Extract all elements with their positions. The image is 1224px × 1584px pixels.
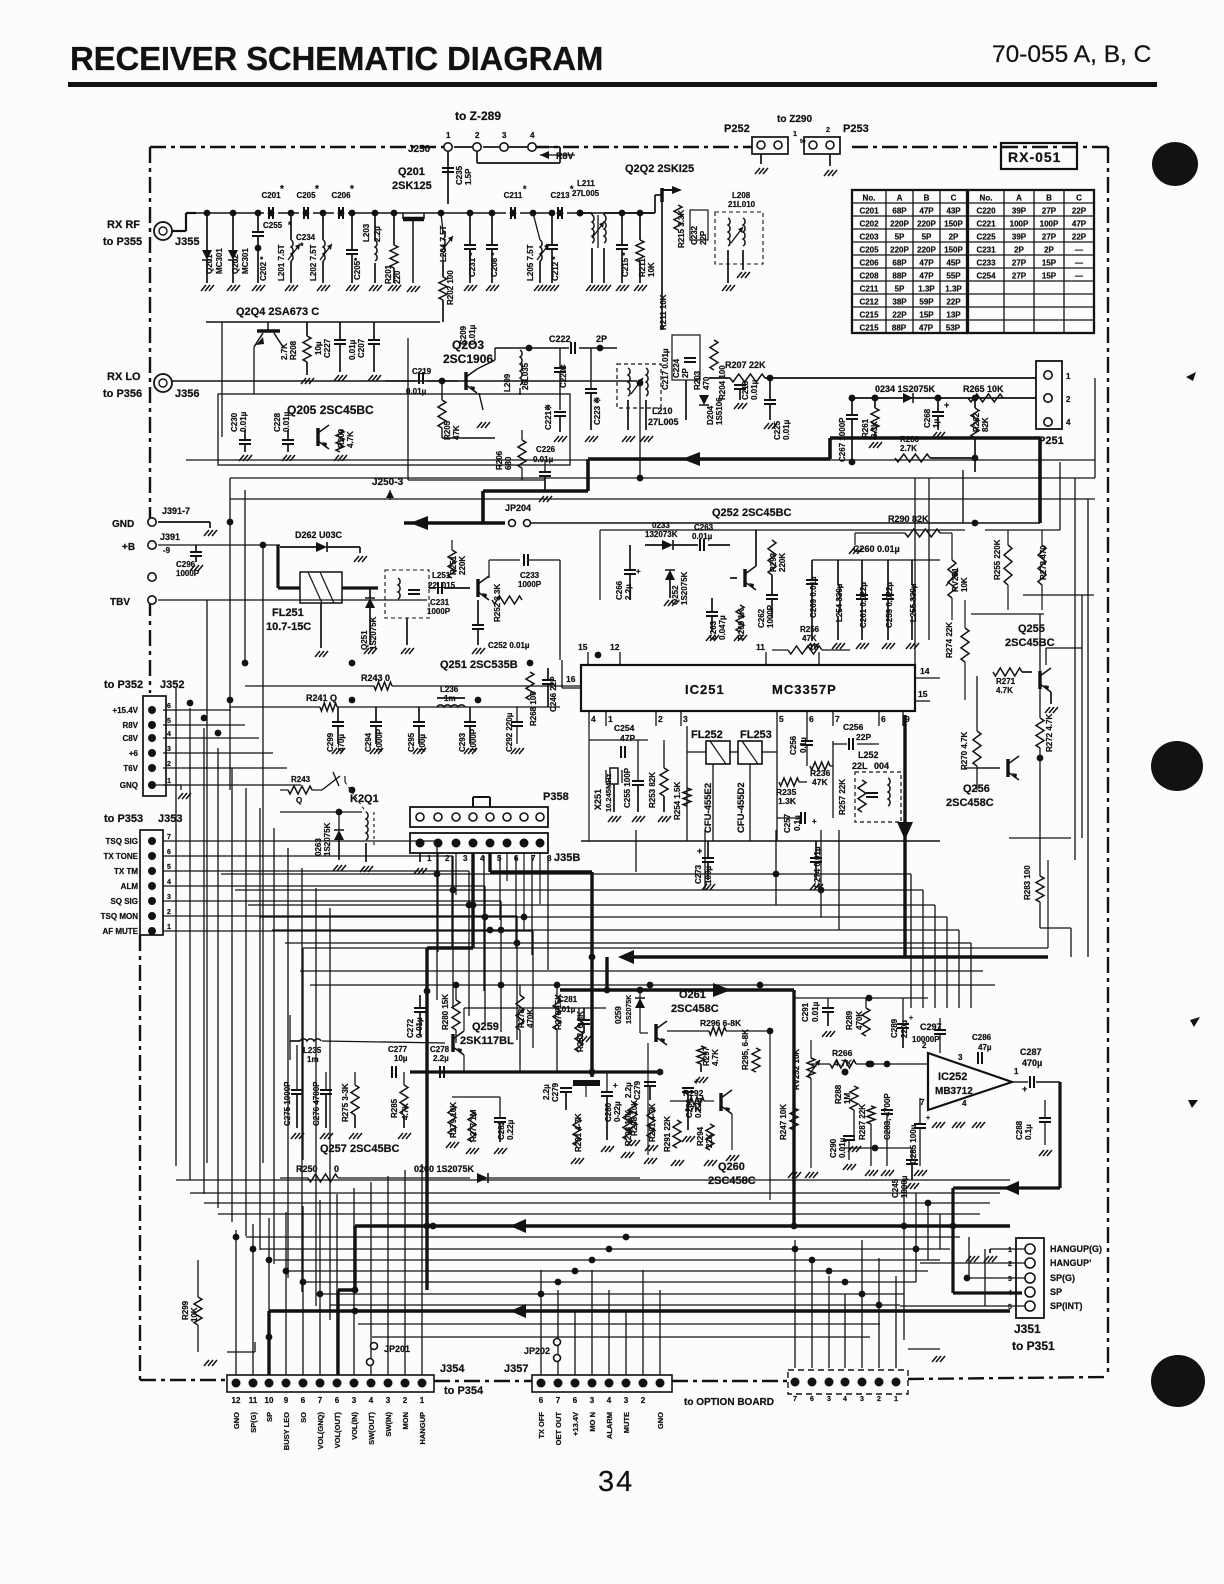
svg-text:27L005: 27L005 [648, 417, 679, 427]
svg-text:220P: 220P [890, 246, 909, 255]
svg-text:C257: C257 [783, 813, 792, 833]
svg-text:C256: C256 [789, 735, 798, 755]
svg-text:C201: C201 [261, 191, 281, 200]
svg-text:5P: 5P [895, 233, 905, 242]
svg-text:C231: C231 [976, 246, 996, 255]
svg-text:No.: No. [863, 194, 876, 203]
svg-text:+: + [613, 1081, 618, 1090]
svg-text:R203: R203 [693, 370, 702, 390]
svg-text:SW(IN): SW(IN) [384, 1411, 393, 1436]
svg-text:—: — [1075, 259, 1083, 268]
svg-text:P358: P358 [543, 791, 569, 803]
svg-text:C225: C225 [773, 420, 782, 440]
svg-text:FL253: FL253 [740, 729, 772, 741]
svg-text:6: 6 [301, 1396, 306, 1405]
svg-text:R251: R251 [449, 555, 458, 575]
svg-text:FL251: FL251 [272, 607, 304, 619]
svg-text:2: 2 [877, 1396, 881, 1403]
svg-text:to P353: to P353 [104, 813, 143, 825]
svg-text:7: 7 [835, 714, 840, 724]
svg-text:39P: 39P [1012, 233, 1027, 242]
svg-text:CFU-455D2: CFU-455D2 [736, 782, 747, 833]
svg-text:C225: C225 [976, 233, 996, 242]
svg-text:1.5P: 1.5P [464, 168, 473, 185]
svg-text:Q202: Q202 [231, 254, 240, 274]
svg-text:3.3K: 3.3K [870, 421, 879, 438]
svg-text:4.7K: 4.7K [711, 1049, 720, 1066]
svg-text:220P: 220P [890, 220, 909, 229]
svg-text:2: 2 [641, 1396, 646, 1405]
svg-text:1.3P: 1.3P [945, 285, 962, 294]
svg-text:A: A [897, 194, 903, 203]
svg-text:R298 10K: R298 10K [624, 1110, 633, 1146]
svg-text:J356: J356 [175, 388, 199, 400]
svg-text:10: 10 [265, 1396, 274, 1405]
svg-text:1000P: 1000P [518, 580, 542, 589]
svg-text:220P: 220P [917, 246, 936, 255]
svg-text:27P: 27P [1012, 259, 1027, 268]
svg-text:SW(OUT): SW(OUT) [367, 1412, 376, 1445]
svg-text:TX TM: TX TM [114, 867, 138, 876]
svg-text:6: 6 [167, 849, 171, 856]
svg-text:680: 680 [504, 456, 513, 470]
svg-text:MON: MON [401, 1412, 410, 1430]
svg-text:L210: L210 [652, 406, 673, 416]
svg-text:2SC458C: 2SC458C [708, 1175, 756, 1187]
svg-text:C245: C245 [891, 1178, 900, 1198]
svg-text:Q: Q [296, 796, 302, 805]
svg-text:470µ: 470µ [337, 734, 346, 752]
svg-text:12: 12 [232, 1396, 241, 1405]
svg-text:59P: 59P [919, 298, 934, 307]
svg-text:RX LO: RX LO [107, 371, 141, 383]
svg-text:C202: C202 [859, 220, 879, 229]
svg-text:+: + [1022, 1084, 1027, 1094]
svg-text:22P: 22P [892, 311, 907, 320]
svg-text:0.1µ: 0.1µ [1024, 1124, 1033, 1140]
svg-text:82K: 82K [981, 417, 990, 432]
svg-text:R270 4.7K: R270 4.7K [960, 732, 969, 770]
svg-text:C287: C287 [1020, 1047, 1042, 1057]
svg-text:L201 7.5T: L201 7.5T [277, 244, 286, 281]
svg-text:C255: C255 [263, 221, 283, 230]
svg-text:6: 6 [335, 1396, 340, 1405]
svg-text:22P: 22P [1072, 233, 1087, 242]
svg-text:22L: 22L [852, 761, 868, 771]
svg-text:45P: 45P [946, 259, 961, 268]
svg-text:220P: 220P [917, 220, 936, 229]
svg-text:0.22µ: 0.22µ [506, 1119, 515, 1140]
svg-text:+: + [926, 1115, 930, 1122]
svg-text:100P: 100P [1040, 220, 1059, 229]
svg-text:R276 15K: R276 15K [554, 994, 563, 1030]
svg-text:C208 *: C208 * [490, 252, 499, 277]
svg-text:4: 4 [591, 714, 596, 724]
svg-text:22P: 22P [856, 732, 871, 742]
svg-text:TSQ MON: TSQ MON [101, 912, 139, 921]
svg-text:10K: 10K [960, 577, 969, 592]
svg-text:J250: J250 [408, 144, 431, 155]
svg-text:1: 1 [1008, 1247, 1012, 1254]
svg-text:to P355: to P355 [103, 236, 142, 248]
svg-text:ALM: ALM [121, 882, 139, 891]
svg-text:6: 6 [810, 1396, 814, 1403]
svg-text:Q201: Q201 [398, 166, 425, 178]
svg-text:47µ: 47µ [978, 1043, 992, 1052]
svg-text:0260 1S2075K: 0260 1S2075K [414, 1164, 475, 1174]
svg-text:4.7K: 4.7K [401, 1103, 410, 1120]
svg-text:11: 11 [756, 642, 765, 652]
svg-text:R247 10K: R247 10K [779, 1104, 788, 1140]
svg-text:C282: C282 [497, 1120, 506, 1140]
svg-text:K2Q1: K2Q1 [350, 793, 379, 805]
svg-text:150P: 150P [944, 246, 963, 255]
svg-text:ALARM: ALARM [605, 1412, 614, 1439]
svg-text:R255 220K: R255 220K [993, 539, 1002, 580]
svg-text:TX OFF: TX OFF [537, 1412, 546, 1439]
svg-text:R208: R208 [289, 340, 298, 360]
svg-text:2: 2 [167, 761, 171, 768]
svg-text:0.01µ: 0.01µ [533, 455, 554, 464]
svg-text:0.01µ: 0.01µ [692, 532, 713, 541]
svg-text:R207 22K: R207 22K [725, 360, 766, 370]
svg-text:5P: 5P [922, 233, 932, 242]
svg-text:70-055 A, B, C: 70-055 A, B, C [992, 41, 1151, 68]
svg-text:Q260: Q260 [718, 1161, 745, 1173]
svg-text:+: + [697, 846, 702, 856]
svg-text:MC301: MC301 [215, 248, 224, 274]
svg-text:27P: 27P [1012, 272, 1027, 281]
svg-text:R256: R256 [800, 625, 820, 634]
svg-text:C227: C227 [323, 338, 332, 358]
svg-text:C205: C205 [296, 191, 316, 200]
svg-text:GNQ: GNQ [120, 781, 138, 790]
svg-text:MC301: MC301 [241, 248, 250, 274]
svg-text:2.7K: 2.7K [900, 444, 917, 453]
svg-text:C223 ※: C223 ※ [593, 397, 602, 425]
svg-text:3: 3 [1008, 1276, 1012, 1283]
svg-text:Q256: Q256 [963, 783, 990, 795]
svg-text:2SC45BC: 2SC45BC [1005, 637, 1055, 649]
svg-text:P252: P252 [724, 123, 750, 135]
svg-text:*: * [350, 184, 354, 195]
svg-text:0.01µ: 0.01µ [750, 379, 759, 400]
svg-text:Q2O3: Q2O3 [452, 338, 484, 352]
svg-text:+15.4V: +15.4V [112, 706, 138, 715]
svg-text:-9: -9 [163, 546, 171, 555]
svg-text:0.01µ: 0.01µ [282, 411, 291, 432]
svg-text:1: 1 [167, 778, 171, 785]
svg-text:L236: L236 [440, 685, 459, 694]
svg-text:RX-051: RX-051 [1008, 149, 1061, 165]
svg-text:+: + [812, 817, 817, 826]
svg-text:4: 4 [843, 1396, 847, 1403]
svg-text:6: 6 [573, 1396, 578, 1405]
svg-text:C254: C254 [976, 272, 996, 281]
svg-text:C255 100P: C255 100P [623, 767, 632, 808]
svg-text:4: 4 [167, 731, 171, 738]
svg-text:J352: J352 [160, 679, 184, 691]
svg-text:Q252 2SC45BC: Q252 2SC45BC [712, 507, 792, 519]
svg-text:C207: C207 [357, 338, 366, 358]
svg-text:R289: R289 [845, 1010, 854, 1030]
svg-text:+6: +6 [129, 749, 139, 758]
svg-text:C208: C208 [859, 272, 879, 281]
svg-text:R273 470: R273 470 [1039, 545, 1048, 580]
svg-text:Q205 2SC45BC: Q205 2SC45BC [287, 403, 374, 417]
svg-text:1: 1 [446, 131, 451, 140]
svg-text:2P: 2P [949, 233, 959, 242]
svg-text:C291: C291 [801, 1002, 810, 1022]
svg-text:470K: 470K [526, 1009, 535, 1028]
svg-text:R201: R201 [384, 264, 393, 284]
svg-text:C292 220µ: C292 220µ [505, 712, 514, 752]
svg-text:C222: C222 [549, 334, 571, 344]
svg-text:C277: C277 [388, 1045, 408, 1054]
svg-text:4: 4 [607, 1396, 612, 1405]
svg-text:C261 0.022µ: C261 0.022µ [859, 582, 868, 628]
svg-text:Q257 2SC45BC: Q257 2SC45BC [320, 1143, 400, 1155]
svg-text:11: 11 [249, 1396, 258, 1405]
svg-text:C206: C206 [859, 259, 879, 268]
svg-text:100µ: 100µ [418, 734, 427, 752]
svg-text:to Z290: to Z290 [777, 114, 812, 125]
svg-text:SP(INT): SP(INT) [1050, 1301, 1083, 1311]
svg-text:C276 4700P: C276 4700P [312, 1081, 321, 1126]
svg-text:JP204: JP204 [505, 503, 531, 513]
svg-text:L204 7.5T: L204 7.5T [439, 225, 448, 262]
svg-text:J391-7: J391-7 [162, 506, 190, 516]
svg-text:5P: 5P [895, 285, 905, 294]
svg-text:6: 6 [167, 703, 171, 710]
svg-text:3: 3 [683, 714, 688, 724]
svg-text:15P: 15P [1042, 259, 1057, 268]
svg-text:OET OUT: OET OUT [554, 1412, 563, 1446]
svg-text:0259: 0259 [614, 1006, 623, 1024]
svg-text:R262: R262 [972, 412, 981, 432]
svg-text:L252: L252 [858, 750, 879, 760]
svg-text:2SK125: 2SK125 [392, 180, 432, 192]
svg-text:R283 100: R283 100 [1023, 865, 1032, 900]
svg-text:2P: 2P [1014, 246, 1024, 255]
svg-text:R206: R206 [495, 450, 504, 470]
svg-text:C201: C201 [859, 207, 879, 216]
svg-text:MB3712: MB3712 [935, 1086, 973, 1097]
svg-text:0234 1S2075K: 0234 1S2075K [875, 384, 936, 394]
svg-text:R266: R266 [832, 1048, 853, 1058]
svg-text:3: 3 [827, 1396, 831, 1403]
svg-text:4: 4 [369, 1396, 374, 1405]
svg-text:RECEIVER SCHEMATIC DIAGRAM: RECEIVER SCHEMATIC DIAGRAM [70, 40, 603, 77]
svg-text:2: 2 [1008, 1261, 1012, 1268]
svg-text:to P354: to P354 [444, 1385, 484, 1397]
svg-text:38P: 38P [892, 298, 907, 307]
svg-text:1M: 1M [843, 1093, 852, 1104]
svg-text:3: 3 [958, 1053, 963, 1062]
svg-text:0.01µ: 0.01µ [239, 411, 248, 432]
svg-text:Q2Q4 2SA673 C: Q2Q4 2SA673 C [236, 306, 319, 318]
svg-text:C286: C286 [972, 1033, 992, 1042]
svg-text:13P: 13P [946, 311, 961, 320]
svg-text:JP201: JP201 [384, 1344, 410, 1354]
svg-text:J357: J357 [504, 1363, 528, 1375]
svg-text:J354: J354 [440, 1363, 465, 1375]
svg-text:1S2075K: 1S2075K [680, 571, 689, 605]
svg-text:TX TONE: TX TONE [103, 852, 138, 861]
svg-text:R294: R294 [696, 1126, 705, 1146]
svg-text:SP: SP [1050, 1287, 1062, 1297]
svg-text:MUTE: MUTE [622, 1412, 631, 1433]
svg-text:R269 1K: R269 1K [737, 608, 746, 640]
svg-text:J351: J351 [1014, 1322, 1041, 1336]
svg-text:C217 0.01µ: C217 0.01µ [661, 348, 670, 390]
svg-text:C230: C230 [230, 412, 239, 432]
svg-text:C211: C211 [860, 285, 879, 294]
svg-text:C259 0.022µ: C259 0.022µ [885, 582, 894, 628]
svg-text:R261: R261 [861, 418, 870, 438]
svg-text:7: 7 [318, 1396, 323, 1405]
svg-text:R254 1.5K: R254 1.5K [673, 782, 682, 820]
svg-text:JP202: JP202 [524, 1346, 550, 1356]
svg-text:34: 34 [598, 1466, 634, 1498]
svg-text:R290 82K: R290 82K [888, 514, 929, 524]
svg-text:R295, 6-8K: R295, 6-8K [741, 1029, 750, 1070]
svg-text:R285: R285 [390, 1098, 399, 1118]
svg-text:Q2Q2 2SKI25: Q2Q2 2SKI25 [625, 163, 694, 175]
svg-text:2: 2 [475, 131, 480, 140]
svg-text:*: * [280, 184, 284, 195]
svg-text:10000P: 10000P [912, 1035, 940, 1044]
svg-text:VOL(OUT): VOL(OUT) [333, 1412, 342, 1449]
svg-text:1: 1 [167, 924, 171, 931]
svg-text:IC252: IC252 [938, 1071, 967, 1083]
svg-text:3: 3 [463, 854, 468, 863]
svg-text:GNO: GNO [232, 1412, 241, 1429]
svg-text:0.01µ: 0.01µ [811, 1001, 820, 1022]
svg-text:R209: R209 [337, 428, 346, 448]
svg-text:3: 3 [386, 1396, 391, 1405]
svg-text:47K: 47K [685, 1104, 701, 1114]
svg-text:C260 0.01µ: C260 0.01µ [853, 544, 900, 554]
svg-text:C: C [1076, 194, 1082, 203]
svg-text:0.01µ: 0.01µ [406, 387, 427, 396]
svg-text:SO: SO [299, 1412, 308, 1423]
svg-text:No.: No. [980, 194, 993, 203]
svg-text:SP(G): SP(G) [249, 1412, 258, 1433]
svg-text:C272: C272 [406, 1018, 415, 1038]
svg-text:220: 220 [393, 270, 402, 284]
svg-text:C221※: C221※ [544, 404, 553, 430]
svg-text:10K: 10K [190, 1307, 199, 1322]
svg-text:C252 0.01µ: C252 0.01µ [488, 641, 530, 650]
svg-text:A: A [1016, 194, 1022, 203]
svg-text:SP: SP [265, 1412, 274, 1422]
svg-text:L205 7.5T: L205 7.5T [526, 244, 535, 281]
svg-text:Q251 2SC535B: Q251 2SC535B [440, 659, 518, 671]
svg-text:R293: R293 [769, 552, 778, 572]
svg-text:470µ: 470µ [1022, 1058, 1042, 1068]
svg-text:MC3357P: MC3357P [772, 682, 837, 697]
svg-text:1.3K: 1.3K [778, 796, 797, 806]
svg-text:53P: 53P [946, 324, 961, 333]
svg-text:0: 0 [334, 1164, 339, 1174]
svg-text:C266: C266 [615, 580, 624, 600]
svg-text:+: + [944, 400, 949, 410]
svg-text:—: — [1075, 246, 1083, 255]
svg-text:C: C [951, 194, 957, 203]
svg-text:C256: C256 [843, 722, 864, 732]
svg-text:1: 1 [420, 1396, 425, 1405]
svg-text:+: + [909, 1015, 913, 1022]
svg-text:C215: C215 [859, 311, 879, 320]
svg-text:2.7K: 2.7K [280, 343, 289, 360]
svg-text:SQ SIG: SQ SIG [110, 897, 138, 906]
svg-text:to Z-289: to Z-289 [455, 109, 501, 123]
svg-text:J353: J353 [158, 813, 182, 825]
svg-text:55P: 55P [946, 272, 961, 281]
svg-text:C233: C233 [520, 571, 540, 580]
svg-text:2: 2 [167, 909, 171, 916]
svg-text:68P: 68P [892, 259, 907, 268]
svg-text:5: 5 [167, 718, 171, 725]
svg-text:R243 0: R243 0 [361, 673, 390, 683]
svg-text:to P351: to P351 [1012, 1339, 1055, 1353]
svg-text:J391: J391 [160, 532, 180, 542]
svg-text:10K: 10K [647, 262, 656, 277]
svg-text:15: 15 [578, 642, 588, 652]
svg-text:2.2µ: 2.2µ [624, 584, 633, 600]
svg-text:47K: 47K [812, 777, 828, 787]
svg-text:—: — [1075, 272, 1083, 281]
svg-text:R211: R211 [638, 258, 647, 277]
svg-text:Q255: Q255 [1018, 623, 1045, 635]
svg-text:1S2075K: 1S2075K [626, 995, 633, 1024]
svg-text:47P: 47P [919, 207, 934, 216]
svg-text:R243: R243 [291, 775, 311, 784]
svg-text:T6V: T6V [123, 764, 138, 773]
svg-text:C279: C279 [633, 1080, 642, 1100]
svg-text:1m: 1m [444, 694, 456, 703]
svg-text:C290: C290 [829, 1138, 838, 1158]
svg-text:C263: C263 [694, 523, 714, 532]
svg-text:R277 1M: R277 1M [469, 1109, 478, 1142]
svg-text:C226: C226 [536, 445, 556, 454]
svg-text:C235: C235 [455, 165, 464, 185]
svg-text:9: 9 [284, 1396, 289, 1405]
svg-text:R250: R250 [296, 1164, 318, 1174]
svg-text:C232: C232 [690, 225, 699, 245]
svg-text:P253: P253 [843, 123, 869, 135]
svg-text:47P: 47P [919, 259, 934, 268]
svg-text:C205*: C205* [353, 257, 362, 280]
svg-text:21L010: 21L010 [728, 200, 756, 209]
svg-text:J250-3: J250-3 [372, 477, 404, 488]
svg-text:BUSY LEO: BUSY LEO [282, 1412, 291, 1450]
svg-text:7: 7 [167, 834, 171, 841]
svg-text:10µ: 10µ [394, 1054, 408, 1063]
svg-text:R296 6-8K: R296 6-8K [700, 1018, 742, 1028]
svg-text:RX RF: RX RF [107, 219, 140, 231]
svg-text:88P: 88P [892, 272, 907, 281]
svg-text:VOL(GNQ): VOL(GNQ) [316, 1412, 325, 1450]
svg-text:2.2µ: 2.2µ [624, 1082, 633, 1098]
svg-text:C219: C219 [412, 367, 432, 376]
svg-text:1000P: 1000P [176, 569, 200, 578]
svg-text:3: 3 [590, 1396, 595, 1405]
svg-text:14: 14 [920, 666, 930, 676]
svg-text:1: 1 [1066, 372, 1071, 381]
svg-text:R205: R205 [443, 420, 452, 440]
